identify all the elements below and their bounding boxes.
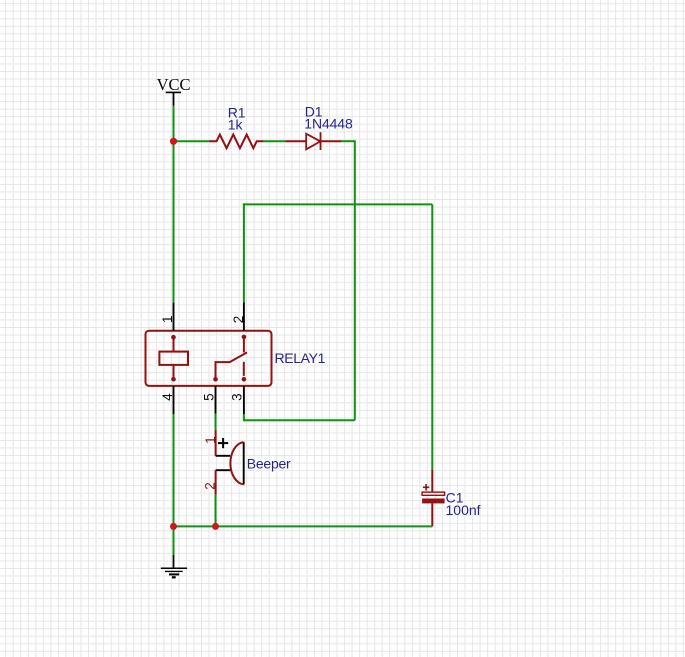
wire relay pin 3 stub: [243, 414, 245, 421]
label C1 value 100nf: [446, 490, 481, 518]
svg-text:Beeper: Beeper: [247, 455, 291, 471]
beeper Beeper body: [216, 442, 244, 484]
relay pin 2: [243, 302, 245, 330]
wire R1 to D1: [264, 140, 286, 142]
relay switch: [216, 337, 248, 378]
wire VCC to R1: [174, 140, 209, 142]
capacitor C1 plates: [422, 492, 445, 503]
relay switch terminal dots: [242, 335, 247, 340]
junction node VCC: [170, 138, 177, 145]
relay pin 4: [173, 386, 175, 414]
relay pin 1: [173, 303, 175, 331]
wire relay pin 2 up: [243, 203, 245, 302]
wire VCC down to relay pin 1: [173, 106, 175, 303]
relay coil: [159, 337, 188, 379]
power VCC symbol: [157, 75, 191, 106]
junction node rail left: [170, 523, 177, 530]
wire relay pin 4 down to rail: [173, 414, 175, 526]
capacitor C1 pin top: [431, 470, 433, 493]
label R1 value 1k: [228, 104, 246, 132]
svg-text:100nf: 100nf: [446, 502, 481, 518]
wire top horizontal to C1 column: [243, 203, 432, 205]
capacitor C1 plus sign: [423, 484, 429, 490]
wire relay pin 5 to beeper: [215, 414, 217, 430]
relay RELAY1 box: [146, 331, 272, 386]
wire D1 to corner: [341, 140, 355, 142]
svg-text:5: 5: [202, 393, 217, 401]
ground: [161, 555, 187, 578]
svg-text:VCC: VCC: [157, 75, 191, 94]
wire down to C1: [431, 204, 433, 469]
svg-text:3: 3: [230, 393, 245, 401]
svg-text:1: 1: [160, 315, 175, 323]
resistor R1: [209, 135, 264, 149]
wire rail to ground: [173, 526, 175, 554]
junction node beeper: [212, 523, 219, 530]
svg-text:1k: 1k: [228, 117, 244, 133]
svg-text:1N4448: 1N4448: [304, 116, 353, 132]
relay pin 3: [243, 386, 245, 414]
relay pin 5: [215, 386, 217, 414]
beeper pin 1: [215, 430, 217, 456]
svg-text:1: 1: [203, 436, 218, 444]
diode D1: [285, 132, 341, 150]
label D1 value 1N4448: [304, 103, 353, 131]
wire bottom rail: [174, 525, 433, 527]
wire horizontal to relay pin 3: [244, 419, 355, 421]
svg-text:RELAY1: RELAY1: [275, 350, 326, 366]
svg-text:2: 2: [231, 316, 246, 324]
capacitor C1 pin bottom: [431, 503, 433, 526]
wire down right of relay: [354, 140, 356, 420]
beeper plus sign: [218, 438, 228, 448]
wire beeper to rail: [215, 495, 217, 527]
svg-text:4: 4: [160, 393, 175, 401]
beeper pin 2: [215, 470, 217, 495]
relay coil terminal dots: [171, 335, 176, 340]
